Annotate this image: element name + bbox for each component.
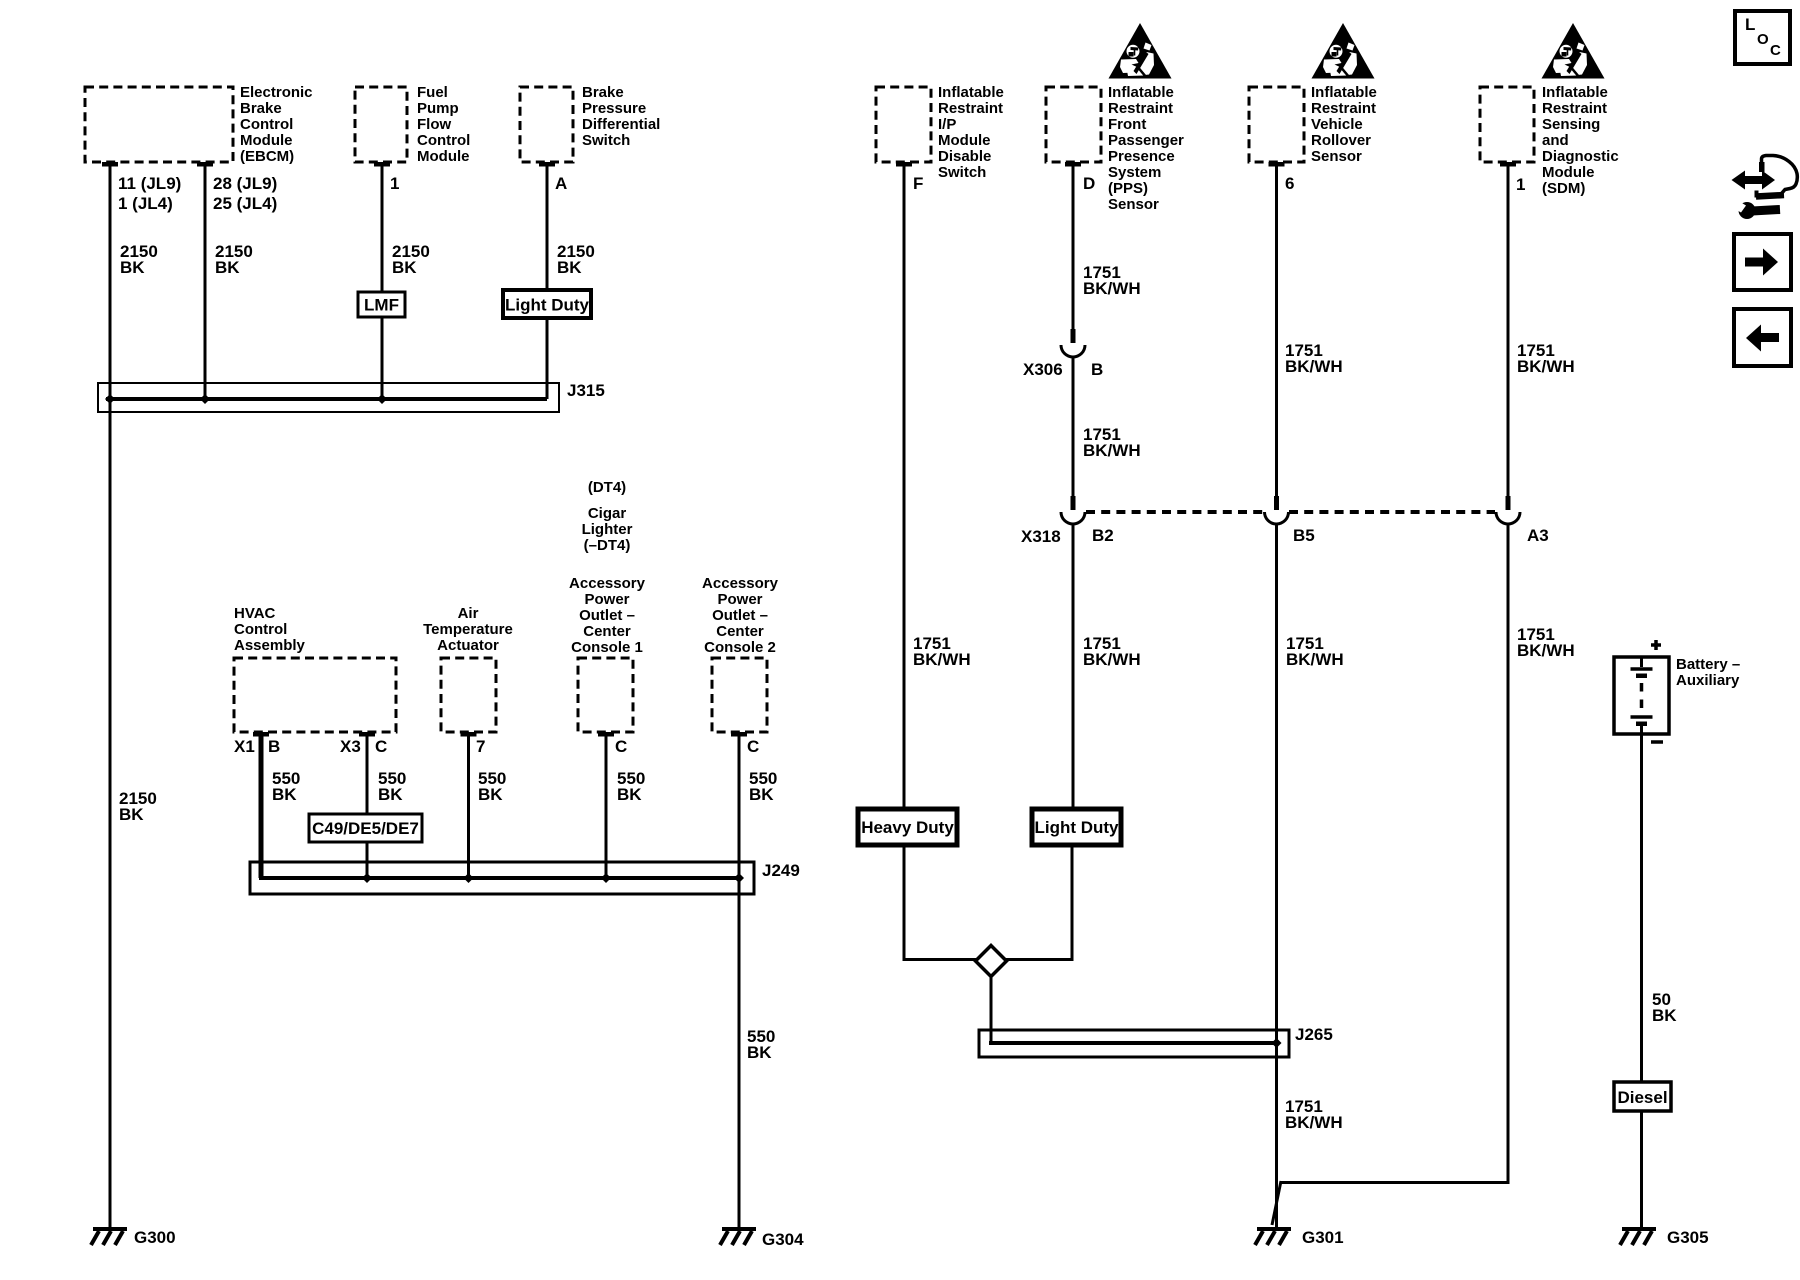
svg-text:Rollover: Rollover bbox=[1311, 132, 1371, 149]
svg-text:(EBCM): (EBCM) bbox=[240, 148, 294, 165]
svg-text:Console 2: Console 2 bbox=[704, 639, 776, 656]
svg-text:1 (JL4): 1 (JL4) bbox=[118, 194, 173, 213]
svg-text:1: 1 bbox=[390, 174, 399, 193]
svg-text:Outlet –: Outlet – bbox=[579, 607, 635, 624]
svg-text:Outlet –: Outlet – bbox=[712, 607, 768, 624]
svg-text:Center: Center bbox=[583, 623, 631, 640]
svg-text:BK: BK bbox=[215, 258, 240, 277]
svg-text:Restraint: Restraint bbox=[1542, 100, 1607, 117]
svg-text:Disable: Disable bbox=[938, 148, 991, 165]
svg-text:25 (JL4): 25 (JL4) bbox=[213, 194, 277, 213]
svg-text:Auxiliary: Auxiliary bbox=[1676, 672, 1740, 689]
svg-text:(DT4): (DT4) bbox=[588, 479, 626, 496]
svg-text:BK: BK bbox=[749, 785, 774, 804]
svg-text:7: 7 bbox=[476, 737, 485, 756]
svg-text:Brake: Brake bbox=[582, 84, 624, 101]
svg-text:G304: G304 bbox=[762, 1230, 804, 1249]
svg-text:Accessory: Accessory bbox=[569, 575, 646, 592]
svg-text:Center: Center bbox=[716, 623, 764, 640]
svg-text:BK/WH: BK/WH bbox=[1286, 650, 1344, 669]
svg-text:Sensor: Sensor bbox=[1108, 196, 1159, 213]
svg-text:Inflatable: Inflatable bbox=[1542, 84, 1608, 101]
svg-text:LMF: LMF bbox=[364, 296, 399, 315]
svg-text:Heavy Duty: Heavy Duty bbox=[861, 818, 954, 837]
svg-text:6: 6 bbox=[1285, 174, 1294, 193]
svg-text:B: B bbox=[1091, 360, 1103, 379]
svg-text:C: C bbox=[747, 737, 759, 756]
svg-text:Air: Air bbox=[458, 605, 479, 622]
svg-text:BK/WH: BK/WH bbox=[1517, 357, 1575, 376]
svg-text:BK/WH: BK/WH bbox=[1083, 279, 1141, 298]
svg-text:J249: J249 bbox=[762, 861, 800, 880]
svg-text:BK: BK bbox=[617, 785, 642, 804]
svg-text:Switch: Switch bbox=[582, 132, 630, 149]
svg-text:G305: G305 bbox=[1667, 1228, 1709, 1247]
svg-text:Passenger: Passenger bbox=[1108, 132, 1184, 149]
svg-text:Vehicle: Vehicle bbox=[1311, 116, 1363, 133]
svg-text:BK/WH: BK/WH bbox=[1517, 641, 1575, 660]
svg-text:Battery –: Battery – bbox=[1676, 656, 1740, 673]
svg-text:Pressure: Pressure bbox=[582, 100, 646, 117]
svg-text:Module: Module bbox=[1542, 164, 1595, 181]
svg-text:BK: BK bbox=[557, 258, 582, 277]
svg-text:O: O bbox=[1757, 31, 1769, 48]
svg-text:Assembly: Assembly bbox=[234, 637, 306, 654]
svg-text:Temperature: Temperature bbox=[423, 621, 513, 638]
svg-text:Control: Control bbox=[234, 621, 287, 638]
svg-text:BK: BK bbox=[120, 258, 145, 277]
svg-text:Inflatable: Inflatable bbox=[1108, 84, 1174, 101]
svg-text:Control: Control bbox=[417, 132, 470, 149]
svg-text:Sensor: Sensor bbox=[1311, 148, 1362, 165]
svg-text:C49/DE5/DE7: C49/DE5/DE7 bbox=[312, 819, 419, 838]
svg-text:X1: X1 bbox=[234, 737, 255, 756]
svg-text:Power: Power bbox=[584, 591, 629, 608]
svg-text:Inflatable: Inflatable bbox=[938, 84, 1004, 101]
svg-text:(PPS): (PPS) bbox=[1108, 180, 1148, 197]
svg-text:BK/WH: BK/WH bbox=[913, 650, 971, 669]
svg-text:and: and bbox=[1542, 132, 1569, 149]
svg-text:Restraint: Restraint bbox=[938, 100, 1003, 117]
svg-text:B2: B2 bbox=[1092, 526, 1114, 545]
svg-text:C: C bbox=[375, 737, 387, 756]
svg-text:Electronic: Electronic bbox=[240, 84, 313, 101]
svg-text:Sensing: Sensing bbox=[1542, 116, 1600, 133]
svg-text:BK: BK bbox=[1652, 1006, 1677, 1025]
svg-text:Restraint: Restraint bbox=[1311, 100, 1376, 117]
svg-text:Actuator: Actuator bbox=[437, 637, 499, 654]
svg-text:BK: BK bbox=[119, 805, 144, 824]
svg-text:BK/WH: BK/WH bbox=[1285, 357, 1343, 376]
svg-text:11 (JL9): 11 (JL9) bbox=[118, 174, 181, 193]
svg-text:J315: J315 bbox=[567, 381, 605, 400]
svg-text:BK/WH: BK/WH bbox=[1083, 441, 1141, 460]
svg-text:Fuel: Fuel bbox=[417, 84, 448, 101]
svg-text:Power: Power bbox=[717, 591, 762, 608]
svg-text:A3: A3 bbox=[1527, 526, 1549, 545]
svg-text:Accessory: Accessory bbox=[702, 575, 779, 592]
svg-text:28 (JL9): 28 (JL9) bbox=[213, 174, 277, 193]
svg-text:Brake: Brake bbox=[240, 100, 282, 117]
svg-text:X318: X318 bbox=[1021, 527, 1061, 546]
svg-text:F: F bbox=[913, 174, 923, 193]
svg-text:G300: G300 bbox=[134, 1228, 176, 1247]
svg-text:BK: BK bbox=[478, 785, 503, 804]
svg-text:(SDM): (SDM) bbox=[1542, 180, 1585, 197]
svg-text:Light Duty: Light Duty bbox=[1034, 818, 1119, 837]
svg-text:Pump: Pump bbox=[417, 100, 459, 117]
svg-text:X306: X306 bbox=[1023, 360, 1063, 379]
svg-text:Console 1: Console 1 bbox=[571, 639, 643, 656]
svg-text:System: System bbox=[1108, 164, 1161, 181]
svg-text:I/P: I/P bbox=[938, 116, 956, 133]
svg-text:BK: BK bbox=[747, 1043, 772, 1062]
svg-text:Restraint: Restraint bbox=[1108, 100, 1173, 117]
svg-text:C: C bbox=[1770, 42, 1781, 59]
svg-text:J265: J265 bbox=[1295, 1025, 1333, 1044]
svg-text:Front: Front bbox=[1108, 116, 1146, 133]
svg-text:BK: BK bbox=[378, 785, 403, 804]
svg-text:Lighter: Lighter bbox=[582, 521, 633, 538]
svg-text:Module: Module bbox=[417, 148, 470, 165]
svg-text:BK: BK bbox=[392, 258, 417, 277]
svg-text:Switch: Switch bbox=[938, 164, 986, 181]
svg-text:Light Duty: Light Duty bbox=[505, 296, 590, 315]
svg-text:A: A bbox=[555, 174, 567, 193]
svg-text:Module: Module bbox=[938, 132, 991, 149]
svg-text:(–DT4): (–DT4) bbox=[584, 537, 631, 554]
svg-text:C: C bbox=[615, 737, 627, 756]
svg-text:Control: Control bbox=[240, 116, 293, 133]
svg-text:HVAC: HVAC bbox=[234, 605, 276, 622]
svg-text:BK/WH: BK/WH bbox=[1083, 650, 1141, 669]
svg-text:Module: Module bbox=[240, 132, 293, 149]
svg-text:X3: X3 bbox=[340, 737, 361, 756]
svg-text:Inflatable: Inflatable bbox=[1311, 84, 1377, 101]
svg-text:D: D bbox=[1083, 174, 1095, 193]
svg-text:1: 1 bbox=[1516, 175, 1525, 194]
svg-text:BK/WH: BK/WH bbox=[1285, 1113, 1343, 1132]
svg-text:Cigar: Cigar bbox=[588, 505, 627, 522]
svg-text:BK: BK bbox=[272, 785, 297, 804]
svg-text:B: B bbox=[268, 737, 280, 756]
svg-text:Differential: Differential bbox=[582, 116, 660, 133]
svg-text:B5: B5 bbox=[1293, 526, 1315, 545]
svg-text:Flow: Flow bbox=[417, 116, 451, 133]
svg-text:Presence: Presence bbox=[1108, 148, 1175, 165]
svg-text:G301: G301 bbox=[1302, 1228, 1344, 1247]
svg-text:L: L bbox=[1745, 15, 1755, 34]
svg-text:Diagnostic: Diagnostic bbox=[1542, 148, 1619, 165]
svg-text:Diesel: Diesel bbox=[1617, 1088, 1667, 1107]
